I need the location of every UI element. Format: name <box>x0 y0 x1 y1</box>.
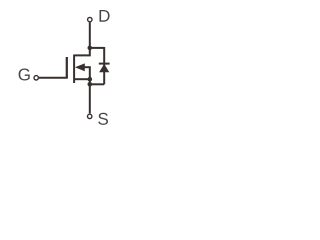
wire: top node to diode branch <box>90 47 104 49</box>
wire: diode bottom to source line <box>90 83 104 85</box>
source terminal S (open circle) <box>88 114 92 118</box>
transistor Q1 drain stub <box>74 48 90 56</box>
wire: gate lead from G terminal <box>39 57 67 78</box>
wire: drain terminal to top node <box>89 22 91 48</box>
wire: diode branch vertical top (cathode side) <box>103 47 105 84</box>
node: diode-source junction dot <box>88 82 93 87</box>
label D <box>100 10 110 22</box>
transistor Q1 gate bar <box>66 57 68 78</box>
label G <box>19 69 30 81</box>
diode D1 cathode bar <box>99 63 110 65</box>
node: drain junction dot <box>88 46 93 51</box>
transistor Q1 source stub <box>74 78 90 80</box>
diode D1 anode triangle (body diode, pointing up) <box>99 64 109 72</box>
wire: body arrow tail <box>84 66 91 68</box>
wire: body corner down through source junctions to S terminal <box>89 67 91 113</box>
drain terminal D (open circle) <box>88 17 92 21</box>
gate terminal G (open circle) <box>34 76 38 80</box>
label S <box>98 113 108 125</box>
transistor Q1 channel bar <box>73 55 75 84</box>
node: source stub junction dot <box>88 77 93 82</box>
transistor Q1 body arrow (points to channel) <box>75 63 85 71</box>
